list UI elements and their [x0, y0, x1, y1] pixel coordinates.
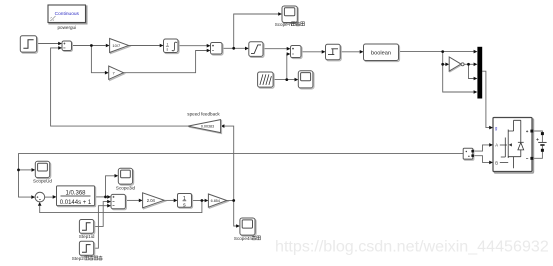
wire E feedback to sum circle: [40, 201, 202, 213]
sum block S3: [291, 46, 303, 59]
voltage measurement block: [463, 148, 474, 160]
wire gain 2.04 to integrator 1/s: [164, 199, 174, 201]
junction node boolean tap: [441, 50, 444, 53]
arrowhead into gain 6.854: [205, 199, 209, 203]
arrowhead into gain 7: [105, 71, 109, 75]
wire sum1 out to gain 10/7: [72, 45, 106, 47]
junction node E feedback tap: [201, 199, 204, 202]
arrowhead into sum3 in1: [287, 47, 291, 51]
svg-text:powergui: powergui: [57, 25, 76, 30]
wire node to Scope-n: [234, 14, 279, 48]
arrowhead into gain 10/7: [106, 44, 110, 48]
wire n node down to Scope4: [234, 201, 237, 227]
junction node ScopeUd tap: [17, 169, 20, 172]
wire subsystem plus to battery: [533, 131, 543, 142]
port square plus: [530, 130, 533, 133]
svg-text:1: 1: [166, 42, 168, 46]
wire sawtooth node up to sum3 in2: [286, 54, 288, 80]
svg-text:speed feedback: speed feedback: [187, 112, 220, 117]
svg-text:Step2: Step2: [72, 256, 84, 261]
ScopeUd block: [35, 161, 50, 178]
powergui block: [48, 5, 87, 24]
arrowhead into subsystem B: [489, 161, 493, 165]
sum circle node: [35, 192, 45, 202]
arrowhead into Scope4: [236, 224, 240, 228]
wire boolean to mux in1: [399, 51, 474, 53]
arrowhead into TF: [53, 195, 57, 199]
arrowhead into sum1 in1: [58, 42, 62, 46]
svg-text:A: A: [495, 143, 498, 148]
arrowhead into sum4 in1: [107, 195, 111, 199]
arrowhead into saturation: [245, 47, 249, 51]
transfer function block armature: [57, 186, 96, 207]
arrowhead into subsystem A: [489, 143, 493, 147]
wire branch node to gain 7: [91, 46, 105, 73]
wire voltage measure out to ScopeUd and sum circle: [19, 154, 464, 198]
Scope-n block: [282, 6, 298, 24]
wire NOT out to mux in2: [464, 63, 474, 65]
arrowhead into 1/s: [174, 199, 178, 203]
svg-text:6.854: 6.854: [211, 199, 220, 203]
arrowhead into mux in3: [474, 77, 478, 81]
arrowhead into sum2 in2: [207, 49, 211, 53]
junction node scope-n tap: [232, 47, 235, 50]
arrowhead into sum4 in2: [107, 200, 111, 204]
wire sawtooth to scope: [273, 79, 295, 81]
arrowhead into mux in1: [474, 50, 478, 54]
diode D inside subsystem: [518, 141, 524, 143]
svg-text:1/0.368: 1/0.368: [65, 190, 86, 196]
arrowhead into subsystem g: [489, 126, 493, 130]
arrowhead into sum2 in1: [207, 44, 211, 48]
Scope3id block: [118, 168, 133, 185]
junction node sum1 branch: [90, 44, 93, 47]
svg-text:0.00383: 0.00383: [201, 125, 214, 129]
svg-text:B: B: [495, 160, 498, 165]
svg-text:Scope-n: Scope-n: [275, 22, 293, 27]
relay block: [326, 44, 342, 61]
svg-text:https://blog.csdn.net/weixin_4: https://blog.csdn.net/weixin_44456932: [275, 238, 549, 256]
wire saturation to sum3: [263, 48, 287, 50]
wire node up to Scope3id: [106, 176, 115, 197]
svg-text:Scope3id: Scope3id: [116, 185, 136, 190]
wire gain 10/7 to integrator: [129, 45, 160, 47]
arrowhead into sum circle left: [31, 195, 35, 199]
gain G2 7: [109, 66, 125, 80]
port square minus: [530, 157, 533, 160]
arrowhead into ScopeUd: [32, 168, 36, 172]
wire integrator to sum2: [178, 45, 207, 47]
step block (speed reference): [20, 36, 37, 53]
arrowhead into mux in2: [474, 63, 478, 67]
svg-text:10/7: 10/7: [112, 43, 121, 48]
integrator block 1/s motor: [178, 194, 193, 209]
svg-text:ScopeUd: ScopeUd: [33, 179, 52, 184]
wire sum3 to relay: [301, 51, 322, 53]
svg-text:boolean: boolean: [371, 50, 391, 56]
mosfet Q inside subsystem: [501, 120, 521, 158]
junction node n tap: [232, 199, 235, 202]
wire NOT node down to mux in3: [469, 64, 474, 78]
arrowhead into Scope3id: [115, 174, 119, 178]
speed feedback gain (left pointing): [188, 120, 222, 134]
arrowhead into mux in4: [474, 90, 478, 94]
wire speed feedback to sum1 in2: [51, 48, 188, 126]
svg-text:s: s: [183, 202, 186, 208]
wire step to sum1: [37, 43, 59, 45]
sum block S1: [62, 41, 72, 51]
junction node sawtooth tap: [285, 78, 288, 81]
svg-text:2.04: 2.04: [147, 198, 156, 203]
sawtooth source block: [258, 72, 275, 88]
arrowhead into gain 2.04: [139, 199, 143, 203]
gain G4 6.854: [208, 194, 227, 208]
NOT gate U1: [449, 57, 464, 72]
saturation block: [249, 42, 264, 58]
arrowhead into sum3 in2: [287, 52, 291, 56]
wire sum circle to TF: [45, 196, 53, 198]
sum block S4: [111, 194, 126, 209]
svg-text:0.0144s + 1: 0.0144s + 1: [60, 200, 92, 206]
wire node down to mux in4: [443, 64, 474, 92]
integrator block 1/s with limit: [164, 39, 180, 54]
wire gain 6.854 to node: [227, 200, 234, 202]
arrowhead into NOT: [445, 63, 449, 67]
svg-text:s: s: [167, 47, 169, 51]
junction node NOT output tap: [467, 63, 470, 66]
gain G1 10/7: [110, 39, 130, 54]
wire vmeas to subsystem B: [473, 156, 490, 163]
wire Step2 to sum4 in3: [94, 206, 108, 249]
sum block S2: [211, 43, 224, 56]
Step2 block: [79, 241, 94, 256]
arrowhead into sum circle bottom: [38, 202, 42, 206]
arrowhead into Scope-n: [278, 12, 282, 16]
arrowhead into speed feedback gain: [221, 124, 225, 128]
Step1id block: [79, 220, 94, 235]
arrowhead into sum4 in3: [107, 204, 111, 208]
boolean data type conversion block: [364, 44, 400, 62]
arrowhead into boolean: [360, 50, 364, 54]
wire Step1id to sum4 in2: [94, 202, 108, 227]
arrowhead into sum1 in2: [58, 46, 62, 50]
arrowhead into pwm scope: [295, 78, 299, 82]
junction node NOT input tap: [441, 63, 444, 66]
gain G3 2.04: [143, 193, 166, 209]
arrowhead into integrator: [160, 44, 164, 48]
mux bar: [477, 47, 482, 99]
wire n node up to speed feedback gain: [224, 126, 234, 200]
pwm scope: [298, 71, 314, 89]
wire gain7 up to sum2 in2: [124, 51, 207, 73]
wire 1/s to gain 6.854: [192, 200, 205, 202]
wire node down to NOT input: [443, 52, 446, 65]
DC source battery: [536, 132, 546, 152]
wire sum4 to gain 2.04: [125, 199, 139, 201]
chopper subsystem block: [493, 118, 533, 173]
wire vmeas to subsystem A: [473, 145, 490, 151]
wire relay to boolean: [340, 51, 360, 53]
Scope4 block: [240, 218, 256, 236]
svg-text:Scope4n: Scope4n: [234, 236, 253, 241]
wire sum2 to saturation: [222, 47, 245, 49]
arrowhead into relay: [322, 50, 326, 54]
wire mux out to subsystem g: [482, 71, 489, 127]
svg-text:Continuous: Continuous: [55, 11, 80, 17]
junction node Scope3id tap: [104, 196, 107, 199]
wire node to ScopeUd: [19, 169, 32, 171]
svg-text:Step1id: Step1id: [79, 234, 95, 239]
wire TF out to sum4: [95, 196, 108, 198]
wire battery to subsystem minus: [533, 145, 543, 158]
